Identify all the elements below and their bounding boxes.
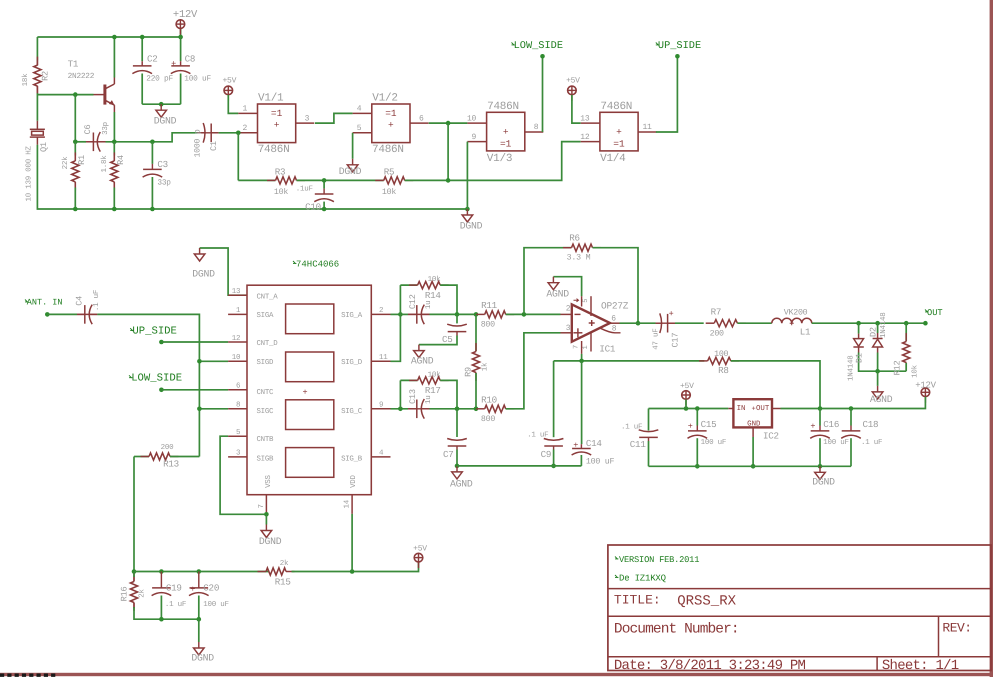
junction xyxy=(675,54,680,59)
svg-text:10k: 10k xyxy=(428,275,442,284)
resistor R8 xyxy=(699,360,708,362)
capacitor C19 xyxy=(152,587,171,589)
svg-text:4: 4 xyxy=(379,450,384,458)
supply +5V xyxy=(685,399,687,405)
wire xyxy=(199,360,228,362)
junction xyxy=(159,340,164,345)
wire xyxy=(199,408,228,410)
svg-text:AGND: AGND xyxy=(870,394,893,405)
svg-text:1: 1 xyxy=(242,105,247,114)
junction xyxy=(159,569,164,574)
svg-text:+5V: +5V xyxy=(413,544,427,553)
svg-text:3.3 M: 3.3 M xyxy=(567,254,591,263)
svg-text:18k: 18k xyxy=(21,73,30,87)
wire xyxy=(36,37,38,61)
junction xyxy=(540,54,545,59)
junction xyxy=(322,178,327,183)
svg-text:DGND: DGND xyxy=(154,116,177,127)
svg-text:C9: C9 xyxy=(541,449,552,460)
transistor T1 2N2222 xyxy=(103,85,106,105)
svg-text:C2: C2 xyxy=(147,54,158,65)
title block lines xyxy=(608,588,991,590)
svg-text:R16: R16 xyxy=(119,587,129,602)
svg-text:2: 2 xyxy=(566,304,571,313)
capacitor C20 xyxy=(190,587,209,589)
svg-text:Document Number:: Document Number: xyxy=(614,622,739,638)
svg-text:SIGC: SIGC xyxy=(257,408,275,416)
resistor R5 xyxy=(375,179,384,181)
wire xyxy=(877,353,879,372)
wire xyxy=(399,380,401,408)
wire xyxy=(151,142,153,164)
svg-text:+: + xyxy=(171,59,176,69)
junction xyxy=(159,388,164,393)
wire R14 to pin11 xyxy=(391,285,401,361)
junction xyxy=(45,312,50,317)
svg-text:C19: C19 xyxy=(166,583,182,594)
pins right side xyxy=(371,313,390,315)
wire to pin12 CNT_D xyxy=(161,341,228,343)
title block border xyxy=(608,545,991,671)
junction xyxy=(474,407,479,412)
op-amp IC1 OP27Z xyxy=(572,304,610,341)
svg-text:10k: 10k xyxy=(274,187,288,197)
svg-text:10: 10 xyxy=(467,114,477,123)
svg-text:R12: R12 xyxy=(892,361,902,376)
wire +5V to pin1 xyxy=(228,95,238,114)
junction xyxy=(455,312,460,317)
supply +5V xyxy=(418,562,420,568)
junction xyxy=(150,207,155,212)
ground AGND xyxy=(456,466,458,472)
svg-text:8: 8 xyxy=(534,123,539,132)
svg-text:+5V: +5V xyxy=(680,382,694,391)
svg-text:+5V: +5V xyxy=(222,76,236,85)
wire +5V to pin13 xyxy=(572,95,581,123)
wire xyxy=(430,313,477,315)
wire xyxy=(440,380,457,408)
wire xyxy=(141,37,143,61)
capacitor C13 xyxy=(408,408,430,410)
svg-text:+: + xyxy=(503,126,509,137)
IC 74HC4066 box xyxy=(247,285,371,495)
svg-text:+: + xyxy=(688,422,693,432)
wire xyxy=(593,248,639,324)
XOR gate 7486N 7486N xyxy=(600,112,638,151)
wire xyxy=(553,450,555,466)
junction xyxy=(398,312,403,317)
wire xyxy=(737,322,771,324)
junction xyxy=(818,464,823,469)
svg-text:R14: R14 xyxy=(425,290,442,301)
svg-text:C5: C5 xyxy=(442,334,453,345)
junction xyxy=(856,321,861,326)
junction xyxy=(849,406,854,411)
svg-text:R13: R13 xyxy=(163,459,179,470)
svg-text:+5V: +5V xyxy=(566,76,580,85)
svg-text:47 uF: 47 uF xyxy=(653,329,661,350)
wire xyxy=(858,323,860,333)
junction xyxy=(197,407,202,412)
svg-text:DGND: DGND xyxy=(339,166,362,177)
wire +12V feed xyxy=(851,397,925,409)
svg-text:.1 uF: .1 uF xyxy=(165,601,186,609)
svg-text:2k: 2k xyxy=(138,589,147,598)
wire xyxy=(400,313,408,315)
svg-text:+: + xyxy=(302,387,307,397)
svg-text:9: 9 xyxy=(379,401,383,410)
junction xyxy=(636,321,641,326)
junction xyxy=(350,569,355,574)
svg-text:=1: =1 xyxy=(385,108,397,119)
svg-text:SIG_A: SIG_A xyxy=(341,312,363,320)
wire xyxy=(430,408,477,410)
crystal Q1 10 139 000 HZ xyxy=(36,121,38,130)
svg-text:13: 13 xyxy=(580,114,590,123)
wire xyxy=(553,361,555,437)
wire xyxy=(752,437,754,466)
junction xyxy=(875,369,880,374)
svg-text:IN: IN xyxy=(737,405,746,413)
svg-text:R8: R8 xyxy=(718,365,729,376)
svg-text:220 pF: 220 pF xyxy=(146,75,173,84)
svg-text:T1: T1 xyxy=(68,58,79,69)
wire xyxy=(685,400,687,409)
wire xyxy=(170,456,199,458)
supply +12V xyxy=(924,397,926,403)
svg-text:UP_SIDE: UP_SIDE xyxy=(132,326,177,338)
wire xyxy=(581,361,583,444)
svg-text:R7: R7 xyxy=(711,307,722,318)
svg-text:D2: D2 xyxy=(868,327,878,337)
svg-text:22k: 22k xyxy=(61,156,70,170)
wire xyxy=(456,409,458,437)
svg-text:200: 200 xyxy=(710,330,724,339)
wire xyxy=(134,571,270,573)
svg-text:5: 5 xyxy=(357,124,362,133)
capacitor C1 xyxy=(197,132,218,134)
pin 7 VSS xyxy=(265,495,267,515)
wire +12V rail xyxy=(37,36,180,38)
svg-text:C1: C1 xyxy=(209,141,219,151)
svg-text:TITLE:: TITLE: xyxy=(614,593,661,608)
junction xyxy=(178,35,183,40)
wire xyxy=(133,572,135,578)
svg-text:+12V: +12V xyxy=(173,9,198,21)
svg-text:SIGD: SIGD xyxy=(257,359,275,367)
switch element D xyxy=(286,448,334,478)
junction xyxy=(818,406,823,411)
svg-text:IC2: IC2 xyxy=(763,431,779,442)
junction xyxy=(197,569,202,574)
svg-text:C14: C14 xyxy=(586,438,603,449)
junction xyxy=(197,359,202,364)
svg-text:.1uF: .1uF xyxy=(296,185,313,193)
pins left side xyxy=(228,294,247,296)
svg-text:R5: R5 xyxy=(384,167,395,178)
svg-text:3: 3 xyxy=(236,449,241,458)
svg-text:C11: C11 xyxy=(630,439,647,450)
svg-text:1000 p: 1000 p xyxy=(194,129,203,157)
wire ground rail xyxy=(37,145,467,209)
svg-text:R10: R10 xyxy=(481,394,497,405)
wire xyxy=(877,323,879,333)
wire xyxy=(134,456,149,458)
svg-text:DGND: DGND xyxy=(259,536,282,547)
svg-text:+: + xyxy=(190,584,195,594)
wire xyxy=(180,37,182,61)
svg-text:Q1: Q1 xyxy=(39,142,49,152)
svg-text:R2: R2 xyxy=(41,71,51,81)
svg-text:3: 3 xyxy=(305,114,310,123)
svg-text:14: 14 xyxy=(344,499,352,508)
svg-text:7486N: 7486N xyxy=(372,144,404,156)
junction xyxy=(322,207,327,212)
svg-text:C13: C13 xyxy=(408,389,418,404)
svg-text:1u: 1u xyxy=(425,395,433,404)
wire xyxy=(74,188,76,210)
wire pin3 to pin4 xyxy=(315,113,353,123)
capacitor C12 xyxy=(408,313,430,315)
svg-text:SIG_B: SIG_B xyxy=(341,455,363,463)
svg-text:DGND: DGND xyxy=(460,221,483,232)
svg-text:6: 6 xyxy=(419,114,424,123)
svg-text:+: + xyxy=(669,309,674,319)
junction xyxy=(695,464,700,469)
svg-text:.1 uF: .1 uF xyxy=(93,290,101,311)
wire xyxy=(74,95,76,142)
wire base xyxy=(37,94,93,96)
svg-text:+: + xyxy=(616,126,622,137)
svg-text:2: 2 xyxy=(379,306,383,315)
ground DGND xyxy=(160,104,162,110)
svg-text:SIG_D: SIG_D xyxy=(341,359,363,367)
svg-text:R4: R4 xyxy=(116,155,126,165)
svg-text:.1 uF: .1 uF xyxy=(527,432,548,440)
junction xyxy=(73,92,78,97)
wire op-amp power rail xyxy=(581,354,583,361)
svg-text:5: 5 xyxy=(582,299,590,303)
wire xyxy=(297,179,384,181)
svg-text:4: 4 xyxy=(357,105,362,114)
svg-text:DGND: DGND xyxy=(192,269,215,280)
wire xyxy=(524,248,572,315)
svg-text:1.8k: 1.8k xyxy=(100,155,109,173)
junction xyxy=(132,569,137,574)
svg-text:OUT: OUT xyxy=(927,308,943,318)
svg-text:OP27Z: OP27Z xyxy=(601,301,629,312)
wire xyxy=(400,379,417,381)
junction xyxy=(73,140,78,145)
svg-text:V1/4: V1/4 xyxy=(600,153,626,165)
wire xyxy=(419,336,457,345)
wire xyxy=(812,322,926,324)
svg-text:1N4148: 1N4148 xyxy=(879,312,888,338)
junction xyxy=(684,406,689,411)
junction xyxy=(923,321,928,326)
svg-text:L1: L1 xyxy=(800,327,811,338)
svg-text:IC1: IC1 xyxy=(599,344,616,355)
junction xyxy=(264,512,269,517)
svg-text:9: 9 xyxy=(472,133,477,142)
svg-text:Date: 3/8/2011 3:23:49 PM: Date: 3/8/2011 3:23:49 PM xyxy=(614,658,806,674)
supply +5V xyxy=(571,95,573,101)
wire CNT_A ground xyxy=(200,248,247,295)
junction xyxy=(112,140,117,145)
svg-text:6: 6 xyxy=(236,382,241,391)
svg-text:DGND: DGND xyxy=(191,653,214,664)
junction xyxy=(522,312,527,317)
svg-text:R3: R3 xyxy=(275,167,286,178)
svg-text:R17: R17 xyxy=(425,385,441,396)
wire xyxy=(648,409,650,431)
svg-text:+: + xyxy=(274,120,280,131)
svg-text:R9: R9 xyxy=(464,367,474,377)
wire xyxy=(475,373,477,409)
wire to C1 xyxy=(106,133,198,142)
svg-text:DGND: DGND xyxy=(812,477,835,488)
svg-text:SIGA: SIGA xyxy=(257,312,275,320)
wire to IC2 OUT node xyxy=(731,361,820,409)
wire to pin12 xyxy=(405,142,581,181)
resistor R11 xyxy=(476,313,485,315)
svg-text:33p: 33p xyxy=(157,179,171,188)
svg-text:GND: GND xyxy=(747,420,761,428)
switch element C xyxy=(286,400,334,430)
svg-text:100 uF: 100 uF xyxy=(701,438,727,447)
svg-text:2N2222: 2N2222 xyxy=(68,72,95,81)
svg-text:C12: C12 xyxy=(408,294,418,309)
wire to pin2 xyxy=(506,313,561,315)
junction xyxy=(446,178,451,183)
ground DGND xyxy=(819,466,821,472)
svg-text:1u: 1u xyxy=(425,301,433,310)
pin 14 VDD xyxy=(351,495,353,514)
junction xyxy=(875,321,880,326)
wire xyxy=(351,514,353,572)
svg-text:2k: 2k xyxy=(280,559,289,568)
wire xyxy=(696,409,698,426)
svg-text:12: 12 xyxy=(232,334,241,343)
svg-text:AGND: AGND xyxy=(450,478,473,489)
svg-text:7486N: 7486N xyxy=(258,144,290,156)
svg-text:=1: =1 xyxy=(613,138,625,149)
wire xyxy=(905,323,907,341)
svg-text:7486N: 7486N xyxy=(600,101,632,113)
svg-text:7: 7 xyxy=(573,345,581,349)
svg-text:100: 100 xyxy=(714,350,728,359)
wire to pin3 xyxy=(506,333,561,409)
svg-text:VSS: VSS xyxy=(265,475,273,488)
svg-text:R11: R11 xyxy=(481,300,498,311)
wire to +5V xyxy=(292,562,419,572)
svg-text:R6: R6 xyxy=(569,233,580,244)
junction xyxy=(446,121,451,126)
svg-text:V1/2: V1/2 xyxy=(372,93,397,105)
svg-text:CNTC: CNTC xyxy=(257,389,275,397)
wire pin2 down xyxy=(237,133,239,181)
svg-text:Sheet: 1/1: Sheet: 1/1 xyxy=(882,658,959,674)
wire pin9 to ground xyxy=(466,142,468,209)
junction xyxy=(112,35,117,40)
svg-text:CNT_D: CNT_D xyxy=(257,340,279,348)
junction xyxy=(197,617,202,622)
svg-text:33p: 33p xyxy=(101,122,110,135)
svg-text:10k: 10k xyxy=(911,364,920,378)
wire C2 C8 ground xyxy=(142,103,180,105)
supply +12V xyxy=(179,28,181,34)
svg-text:SIG_C: SIG_C xyxy=(341,408,363,416)
wire xyxy=(456,314,458,323)
junction xyxy=(695,406,700,411)
svg-text:7486N: 7486N xyxy=(487,101,519,113)
resistor R15 xyxy=(258,571,267,573)
svg-text:5: 5 xyxy=(236,429,241,437)
svg-text:+: + xyxy=(573,440,578,450)
junction xyxy=(904,321,909,326)
junction xyxy=(140,35,145,40)
wire xyxy=(440,285,457,314)
junction xyxy=(159,102,164,107)
wire CNTB ground xyxy=(220,436,266,514)
svg-text:C7: C7 xyxy=(443,449,454,460)
svg-text:800: 800 xyxy=(481,415,495,424)
svg-text:10: 10 xyxy=(232,353,241,362)
frame corner dashes xyxy=(0,674,57,677)
svg-text:REV:: REV: xyxy=(942,621,971,636)
svg-text:10k: 10k xyxy=(382,187,396,197)
svg-text:200: 200 xyxy=(161,443,175,452)
wire xyxy=(905,363,907,371)
switch element B xyxy=(286,352,334,382)
svg-text:CNTB: CNTB xyxy=(257,436,275,444)
svg-text:C3: C3 xyxy=(157,159,168,170)
svg-text:13: 13 xyxy=(232,287,241,296)
sheet frame bottom xyxy=(0,673,993,676)
svg-text:C4: C4 xyxy=(74,296,84,306)
capacitor C6 xyxy=(86,141,106,143)
svg-text:11: 11 xyxy=(379,354,388,362)
sheet frame right xyxy=(990,0,993,677)
svg-text:SIGB: SIGB xyxy=(257,455,275,463)
svg-text:+12V: +12V xyxy=(915,381,936,391)
regulator IC2 xyxy=(733,399,772,427)
svg-text:V1/1: V1/1 xyxy=(258,93,284,105)
junction xyxy=(455,407,460,412)
wire xyxy=(113,188,115,210)
wire down xyxy=(133,457,135,572)
svg-text:1: 1 xyxy=(236,307,241,315)
wire pin6 to pin10 xyxy=(429,122,468,124)
svg-text:100 uF: 100 uF xyxy=(586,458,615,467)
svg-text:CNT_A: CNT_A xyxy=(257,293,279,301)
wire down to R5 line xyxy=(447,123,449,180)
svg-text:74HC4066: 74HC4066 xyxy=(296,260,339,270)
wire xyxy=(649,465,852,467)
svg-text:AGND: AGND xyxy=(546,289,569,300)
switch element A xyxy=(286,304,334,334)
wire xyxy=(475,314,477,351)
svg-text:12: 12 xyxy=(580,133,590,142)
wire xyxy=(323,180,325,188)
wire xyxy=(877,371,879,386)
wire xyxy=(457,465,581,467)
junction xyxy=(398,407,403,412)
svg-text:C15: C15 xyxy=(701,419,717,430)
wire to +12V symbol xyxy=(180,29,182,37)
svg-text:11: 11 xyxy=(642,123,652,132)
wire xyxy=(391,408,409,410)
